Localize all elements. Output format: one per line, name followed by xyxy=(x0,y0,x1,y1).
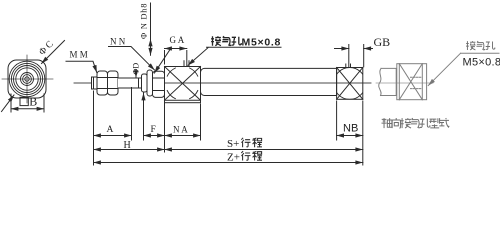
label air port M5x0.8 top xyxy=(211,36,241,45)
svg-text:ΦD: ΦD xyxy=(132,63,141,75)
rod nut 1 xyxy=(97,71,108,95)
rod collar xyxy=(142,74,148,92)
thread marks xyxy=(411,77,422,88)
dimension GB xyxy=(335,48,349,50)
dimension box-B line xyxy=(11,108,44,110)
piston rod xyxy=(118,78,142,88)
svg-text:Z+: Z+ xyxy=(227,151,240,163)
ext line head right face xyxy=(200,104,202,140)
label air port gray xyxy=(466,41,495,50)
phi-N Dh8 leader line with double arrow xyxy=(150,3,152,46)
nut flat lines xyxy=(97,78,118,89)
rear port ticks xyxy=(346,64,351,68)
svg-text:F: F xyxy=(151,125,156,135)
ext line A right xyxy=(131,88,133,141)
front head xyxy=(165,67,201,103)
dimension H xyxy=(94,149,165,151)
leader M M xyxy=(66,61,97,72)
label Z plus stroke xyxy=(227,151,262,163)
svg-text:Φ C: Φ C xyxy=(38,39,56,57)
svg-text:Φ N Dh8: Φ N Dh8 xyxy=(139,3,149,39)
front view centerlines xyxy=(2,55,53,103)
dimension F xyxy=(144,135,165,137)
dimension A xyxy=(94,135,132,137)
label S plus stroke xyxy=(227,138,262,150)
mounting hex nut xyxy=(153,71,165,97)
dimension box-B extension lines xyxy=(11,94,44,112)
svg-text:G A: G A xyxy=(170,35,185,45)
dimension NA xyxy=(165,135,201,137)
piston rod thread stub xyxy=(92,77,98,89)
detail view axial port type xyxy=(376,53,499,99)
dimension GA xyxy=(165,48,187,50)
box-B square glyph xyxy=(20,97,28,105)
rod nut 2 xyxy=(108,71,119,95)
dimension Z plus stroke xyxy=(94,162,363,164)
ext line F left with up arrow xyxy=(143,93,145,140)
svg-text:S+: S+ xyxy=(227,138,239,150)
leader to chamfer corner xyxy=(2,95,15,112)
front view octagon body xyxy=(8,60,46,98)
main centerline xyxy=(74,82,371,84)
svg-text:M5×0.8: M5×0.8 xyxy=(463,57,500,69)
detail centerline xyxy=(376,82,433,84)
front view concentric circles xyxy=(9,61,45,97)
svg-text:M5×0.8: M5×0.8 xyxy=(242,36,282,48)
ext line head left face xyxy=(164,103,166,152)
cylinder tube xyxy=(201,68,337,95)
boss disc xyxy=(147,70,153,96)
rear head xyxy=(337,68,363,100)
svg-text:N A: N A xyxy=(173,124,188,134)
detail rear head xyxy=(397,64,427,100)
leader phi-C xyxy=(42,41,65,64)
svg-text:NB: NB xyxy=(343,122,358,134)
svg-text:M M: M M xyxy=(70,50,88,60)
svg-text:H: H xyxy=(124,140,131,151)
dimension NB xyxy=(337,135,363,137)
ext line rear face xyxy=(362,101,364,165)
svg-text:A: A xyxy=(107,125,114,135)
detail leader xyxy=(428,53,460,85)
phi-D leader arrow xyxy=(135,70,137,78)
label axial port type xyxy=(382,118,450,128)
ext line rear head left xyxy=(336,101,338,140)
svg-text:B: B xyxy=(29,95,37,109)
oblique leader to boss xyxy=(154,50,169,73)
svg-text:GB: GB xyxy=(374,35,391,49)
dimension S plus stroke xyxy=(165,149,363,151)
broken tube stub xyxy=(381,68,397,95)
ext line rod end xyxy=(93,91,95,165)
leader N N xyxy=(109,47,155,71)
svg-text:N N: N N xyxy=(110,37,126,47)
air port label leader xyxy=(188,47,281,65)
front port ticks xyxy=(184,61,189,67)
